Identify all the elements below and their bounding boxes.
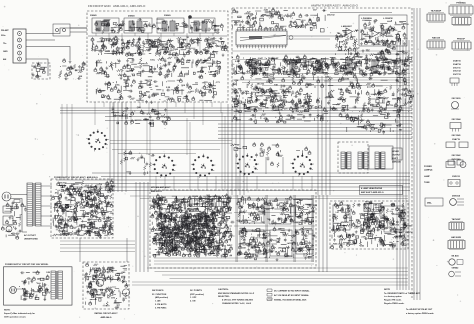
svg-text:LAMP(2): LAMP(2) — [424, 169, 433, 172]
rating transistor Q903 — [122, 289, 129, 296]
headphone amp title box — [360, 186, 403, 195]
svg-text:2SC1030: 2SC1030 — [452, 98, 462, 100]
function switch wafer S1-1 — [86, 129, 109, 151]
svg-text:AC OUTLET: AC OUTLET — [24, 234, 36, 237]
antenna terminal 2 — [18, 38, 22, 42]
antenna terminal strip — [13, 29, 26, 63]
svg-text:MUX BUSS STANDARD NOTES H-LF: MUX BUSS STANDARD NOTES H-LF — [218, 292, 255, 295]
tuner assembly dashed border right — [411, 8, 413, 298]
headphone sub-circuit box A — [333, 205, 350, 230]
svg-text:SW FUNCS: SW FUNCS — [152, 290, 164, 292]
ref package upper right 2 — [452, 18, 471, 25]
svg-text:DIAL: DIAL — [427, 202, 433, 205]
output stage dashed box — [338, 142, 368, 173]
svg-text:AMP ASS'Y AMR-035-G: AMP ASS'Y AMR-035-G — [361, 191, 384, 194]
svg-text:POWER SUPPLY CIRCUIT FOR 100V: POWER SUPPLY CIRCUIT FOR 100V MODEL — [5, 264, 49, 266]
svg-text:2SC710: 2SC710 — [401, 24, 409, 26]
ref 2SC1345 2SA719 labels — [452, 134, 462, 141]
ref PH001P package — [452, 42, 471, 49]
IF row top rail — [232, 60, 410, 74]
meter amp sub-box parts — [360, 19, 410, 47]
jack box — [392, 148, 402, 160]
svg-text:2SC710: 2SC710 — [386, 105, 394, 107]
coil L3 — [162, 21, 167, 31]
lower interconnect wires — [56, 173, 410, 191]
right area vertical wires — [414, 8, 420, 300]
rating transistor Q901 — [96, 279, 103, 286]
AM amp stage row 1 — [236, 195, 318, 225]
RF stage transistor Q3 — [185, 23, 188, 27]
svg-text:100u: 100u — [150, 60, 155, 62]
svg-text:S1 FUNCTION: S1 FUNCTION — [152, 294, 167, 296]
coil L4 — [194, 21, 199, 31]
svg-text:S2 POINTS: S2 POINTS — [190, 290, 202, 292]
RF stage transistor Q2 — [152, 23, 155, 27]
MPX bottom wires — [154, 258, 314, 264]
svg-text:L.AML8607: L.AML8607 — [341, 25, 353, 28]
antenna labels — [1, 29, 9, 61]
svg-text:2SC1344: 2SC1344 — [452, 118, 462, 121]
svg-text:GND: GND — [3, 51, 8, 53]
middle sparse parts — [230, 142, 311, 158]
ref transistor list — [453, 60, 462, 77]
RF row caps — [98, 27, 211, 32]
ref TA7069AP package — [427, 14, 445, 21]
svg-text:AMR-044-G: AMR-044-G — [100, 316, 111, 319]
FM front end assembly dashed enclosure — [87, 11, 228, 102]
svg-text:RATING CIRCUIT ASS'Y: RATING CIRCUIT ASS'Y — [94, 312, 118, 315]
left edge small parts — [59, 58, 87, 80]
function switch wafer S1-3 — [191, 154, 215, 178]
svg-text:0.047: 0.047 — [258, 57, 264, 60]
bottom vertical bundle x319-327 — [319, 195, 327, 272]
MPX decoder parts left — [150, 193, 235, 258]
svg-text:2SD313: 2SD313 — [452, 176, 461, 178]
svg-text:0.047: 0.047 — [100, 90, 106, 93]
svg-text:ASS'Y: ASS'Y — [392, 157, 399, 160]
signal bus wires — [60, 108, 412, 154]
AM amp sub-circuit box A — [240, 200, 264, 223]
AM amp sub-circuit box B — [269, 200, 291, 224]
svg-text:PH001P: PH001P — [457, 39, 466, 41]
detector row left — [232, 87, 314, 115]
svg-text:4 OR 5x5, VTR TUNING VALVES: 4 OR 5x5, VTR TUNING VALVES — [222, 299, 253, 302]
wires above headphone box — [130, 196, 408, 199]
MPX filter sub box — [32, 63, 50, 79]
svg-text:10K: 10K — [374, 205, 378, 207]
power transformer T901 — [27, 183, 41, 226]
svg-text:2SK30A: 2SK30A — [452, 195, 461, 198]
tuner top rail — [330, 12, 392, 14]
op-amp U2 triangle — [372, 30, 379, 37]
function switch wafer S1-4 — [235, 153, 258, 176]
IF mid rails — [232, 78, 410, 86]
bus verticals left — [62, 104, 72, 180]
svg-text:3. FM FUNC: 3. FM FUNC — [155, 307, 167, 309]
driver sub box — [369, 146, 393, 169]
power supply circuit assy AMR-005-G enclosure — [51, 179, 113, 238]
dial cord line — [287, 35, 345, 37]
svg-text:Ta: RESIDENT RATIO of THE BF A: Ta: RESIDENT RATIO of THE BF ANT — [384, 292, 421, 295]
legend measurement icons — [267, 289, 310, 301]
svg-text:NOTE: NOTE — [384, 289, 391, 291]
wire antenna to front end 2 — [26, 39, 55, 41]
svg-text:0.047: 0.047 — [80, 206, 86, 209]
RF stage transistor Q1 — [119, 23, 122, 27]
tuner dashed border left — [231, 8, 233, 103]
svg-text:TA7069AP: TA7069AP — [431, 10, 442, 13]
svg-text:2SC710: 2SC710 — [306, 61, 314, 63]
dial lamp box — [425, 198, 443, 206]
power lamp labels — [424, 166, 433, 184]
front end vertical drops — [96, 33, 213, 52]
transformer T902 — [51, 271, 63, 299]
svg-text:MPX AM AMP ASS'Y: MPX AM AMP ASS'Y — [151, 186, 171, 189]
driver transformers T1 T2 T3 — [341, 152, 385, 169]
svg-text:2SA716: 2SA716 — [453, 60, 462, 63]
coil L1b — [104, 21, 109, 31]
svg-text:2SC1345: 2SC1345 — [452, 134, 462, 137]
svg-text:AMR-035: AMR-035 — [392, 161, 402, 164]
AC plug — [2, 192, 11, 201]
svg-text:0SM42: 0SM42 — [452, 267, 460, 270]
svg-text:SE A56: SE A56 — [451, 255, 459, 258]
MPX AM amp assy AM6-005-G enclosure — [150, 190, 316, 268]
svg-text:SELECTED:: SELECTED: — [218, 296, 230, 298]
rating transistor Q902 — [90, 289, 97, 296]
tuning gang capacitor body — [236, 31, 287, 45]
wire antenna to front end 1 — [26, 28, 87, 34]
MPX AM amp label — [151, 186, 171, 193]
AM amp sub-circuit box E — [270, 230, 292, 256]
svg-text:2SC711: 2SC711 — [453, 67, 461, 69]
svg-text:2.2K: 2.2K — [264, 9, 269, 11]
switch interconnect parts — [120, 150, 155, 176]
svg-text:1. OFF: 1. OFF — [190, 297, 197, 299]
ref 2SC1030 package — [451, 102, 459, 110]
ref TO92 outline A — [450, 78, 459, 86]
svg-text:10K: 10K — [79, 76, 83, 78]
ref SE A56 package — [449, 259, 463, 265]
svg-text:Ta: ADJUST AT FM AF OUT: Ta: ADJUST AT FM AF OUT — [406, 308, 433, 311]
detector row right — [315, 87, 414, 113]
wires above rating box — [60, 238, 135, 262]
AM amp sub-circuit box C — [295, 199, 313, 222]
headphone amp parts — [331, 201, 414, 249]
AC plug 100V — [10, 287, 24, 294]
coil L1 — [96, 21, 101, 31]
svg-text:AM6-005-G: AM6-005-G — [151, 190, 162, 193]
front end row wire — [88, 35, 227, 37]
svg-text:TA7069P: TA7069P — [452, 218, 461, 221]
svg-text:2SA719: 2SA719 — [145, 79, 153, 82]
ref RA1038 package — [427, 41, 445, 48]
svg-text:UNSWITCHED: UNSWITCHED — [24, 239, 38, 241]
tuner mid rails — [232, 51, 410, 54]
svg-text:AC VOLTAGE AT NO INPUT SIGNAL: AC VOLTAGE AT NO INPUT SIGNAL — [274, 294, 310, 297]
AM amp sub-circuit box F — [296, 230, 313, 254]
svg-text:4 LAMP HEADPHONE: 4 LAMP HEADPHONE — [361, 187, 383, 190]
MPX filter parts — [32, 62, 47, 78]
parts above wafer band — [111, 106, 170, 126]
function switch wafer S1-2 — [152, 154, 176, 178]
svg-text:1. AM: 1. AM — [155, 300, 161, 303]
IC SE7304 hatched — [364, 204, 380, 212]
ref 2SC1342 2SD234A labels — [451, 154, 461, 161]
wire antenna ground — [26, 47, 70, 61]
headphone amp assy AMR-035-G enclosure — [330, 201, 408, 249]
coil L4b — [202, 21, 207, 31]
rating circuit label — [94, 312, 118, 319]
svg-text:2SC732: 2SC732 — [257, 83, 265, 85]
front end drop wires — [95, 102, 221, 125]
svg-text:SIGNAL VOLTAGE AT IDEAL AUX: SIGNAL VOLTAGE AT IDEAL AUX — [274, 298, 307, 301]
ref 2SK30A package — [450, 199, 464, 206]
power supply circuit for 100V model box — [4, 267, 73, 305]
svg-text:L.1306PM: L.1306PM — [383, 18, 393, 20]
svg-text:2. FM AUTO: 2. FM AUTO — [155, 303, 167, 306]
legend s2 points — [190, 290, 204, 303]
svg-text:Regular FM2H mode.: Regular FM2H mode. — [384, 302, 405, 305]
far bottom right note — [406, 308, 435, 315]
antenna terminal 3 — [18, 45, 22, 49]
svg-text:HA1306W: HA1306W — [451, 236, 462, 239]
svg-text:TUNE: TUNE — [424, 182, 430, 184]
AM amp sub-circuit box D — [240, 230, 264, 254]
tuning gang wedge lines — [240, 35, 286, 40]
rating circuit parts — [84, 262, 128, 309]
transformer secondary wires — [41, 186, 52, 226]
svg-text:3SK49: 3SK49 — [164, 14, 171, 17]
svg-text:2SK49: 2SK49 — [128, 15, 135, 18]
bus verticals x110-128 — [110, 102, 225, 192]
ref PH0882A package — [449, 6, 473, 14]
svg-text:0.047: 0.047 — [183, 97, 189, 100]
svg-text:1S1555: 1S1555 — [256, 95, 264, 97]
FM RF shield box 3 — [157, 18, 184, 33]
svg-text:2SC710: 2SC710 — [197, 71, 205, 73]
svg-text:2SC710: 2SC710 — [234, 21, 242, 23]
svg-text:2SC732: 2SC732 — [405, 232, 413, 234]
svg-text:is a factory option: is a factory option — [384, 295, 402, 298]
wafer drop wires — [156, 176, 312, 190]
ref 2SC1345 package — [446, 142, 468, 148]
AM amp horizontal rails — [234, 213, 315, 227]
IC L1306M hatched — [190, 199, 209, 207]
svg-text:3SK45: 3SK45 — [90, 14, 97, 17]
svg-text:CAUTION:: CAUTION: — [218, 288, 229, 291]
svg-text:2SA718: 2SA718 — [453, 63, 462, 66]
wire AM antenna — [26, 59, 48, 76]
tuning gang top ticks — [236, 28, 287, 31]
svg-text:100u: 100u — [185, 44, 190, 46]
MPX decoder core blob — [157, 210, 217, 253]
FM IF amplifier row — [232, 54, 413, 77]
antenna terminal 5 — [18, 57, 22, 61]
fuse F901 — [14, 200, 20, 203]
dark trimmer capacitor — [188, 15, 192, 19]
RF shield band parts — [95, 18, 224, 34]
ref 0SM42 package — [449, 271, 461, 277]
svg-text:100V operation circuit.: 100V operation circuit. — [4, 316, 26, 319]
ref 2SD313 package — [448, 180, 460, 187]
svg-text:2SA719: 2SA719 — [452, 138, 461, 141]
antenna terminal 4 — [18, 51, 22, 55]
svg-text:PH0882A: PH0882A — [456, 2, 466, 5]
svg-text:2SC733: 2SC733 — [453, 74, 462, 76]
svg-text:FM FRONT END AM6-100-C, AM6-: FM FRONT END AM6-100-C, AM6-015-O — [88, 4, 146, 8]
svg-text:LAMP: LAMP — [424, 175, 430, 178]
right tuner column parts — [362, 46, 409, 60]
bus verticals x396-410 — [397, 40, 409, 290]
legend right note — [384, 289, 421, 305]
svg-text:POWER SUPPLY CIRCUIT ASS'Y AM: POWER SUPPLY CIRCUIT ASS'Y AMR-005-G — [54, 176, 98, 179]
svg-text:2. ON: 2. ON — [190, 301, 196, 303]
FM IF limiter band — [232, 74, 407, 90]
headphone amp core blob — [362, 213, 385, 230]
svg-text:0.047: 0.047 — [235, 60, 241, 63]
svg-text:(AM position): (AM position) — [155, 296, 168, 299]
svg-text:2.2K: 2.2K — [166, 87, 171, 89]
FM oscillator stage components — [94, 56, 221, 79]
svg-text:100u: 100u — [245, 91, 250, 93]
balun connector box — [53, 24, 70, 36]
tuning gang dark label — [249, 36, 262, 39]
svg-text:LEVER: LEVER — [392, 151, 399, 153]
IF strip row 1 transformers — [252, 60, 378, 73]
svg-text:100u: 100u — [92, 216, 97, 218]
bus verticals x318-330 — [318, 76, 330, 195]
svg-text:10K: 10K — [406, 65, 410, 67]
tuner assembly dashed border top — [232, 7, 412, 9]
ground symbol near antenna — [69, 60, 72, 63]
rating circuit assy AMR-044-G enclosure — [83, 262, 129, 309]
headphone jack note — [392, 151, 402, 164]
AC wiring to transformer — [11, 195, 27, 233]
svg-text:4.7K: 4.7K — [98, 284, 103, 287]
svg-text:RA1038: RA1038 — [432, 37, 441, 40]
svg-text:a factory option FM2H mode.: a factory option FM2H mode. — [406, 312, 435, 315]
svg-text:FM ANT: FM ANT — [1, 29, 9, 32]
note below 100V box — [4, 310, 35, 319]
svg-text:4.7K: 4.7K — [77, 217, 82, 220]
svg-text:2SA719: 2SA719 — [119, 115, 127, 118]
coil L2b — [137, 21, 142, 31]
headphone sub-circuit box B — [384, 206, 404, 232]
bottom vertical bundle x136-148 — [136, 182, 148, 272]
FM OSC shield box 4 — [189, 18, 215, 33]
meter amp sub-box — [359, 15, 407, 46]
bottom bus wires — [132, 268, 408, 285]
svg-text:2.2K: 2.2K — [408, 102, 413, 104]
svg-text:0.047: 0.047 — [255, 99, 261, 102]
tuning gang bottom ticks — [236, 45, 287, 48]
FM RF shield box 1 — [92, 18, 119, 33]
svg-text:AM/FM TUNER ASS'Y AM6-015-O: AM/FM TUNER ASS'Y AM6-015-O — [311, 4, 359, 8]
svg-text:100u: 100u — [321, 70, 326, 72]
power switch parts — [12, 201, 27, 212]
svg-text:2.2K: 2.2K — [281, 230, 286, 232]
svg-text:NOTE:: NOTE: — [4, 310, 11, 312]
svg-text:2SD234A: 2SD234A — [451, 158, 461, 161]
svg-text:2SC732: 2SC732 — [59, 182, 67, 184]
antenna terminal 1 — [18, 32, 22, 36]
AC outlet parts — [1, 202, 22, 239]
ref TA7069P package — [449, 223, 464, 230]
AM amp stage row 2 — [237, 227, 316, 262]
svg-text:2SC732: 2SC732 — [327, 15, 335, 17]
svg-text:33K: 33K — [396, 54, 400, 56]
ratio detector right parts — [339, 109, 403, 134]
headphone amp label — [361, 187, 384, 194]
svg-text:(OFF position): (OFF position) — [190, 293, 204, 296]
level control between wafers — [266, 156, 283, 174]
svg-text:POWER: POWER — [424, 166, 432, 168]
svg-text:0.047: 0.047 — [323, 71, 329, 74]
svg-text:Regular FM mode.: Regular FM mode. — [384, 299, 402, 302]
bus verticals x228-246 — [228, 104, 244, 195]
function switch wafer S1-5 — [290, 153, 314, 176]
AC outlet block — [3, 206, 13, 232]
svg-text:Super-Pr-Max indicated only fo: Super-Pr-Max indicated only for — [4, 312, 35, 315]
tuner upper area components — [232, 8, 335, 33]
FM AGC components — [96, 78, 221, 104]
speaker icons — [448, 160, 463, 165]
IF right dashed divider — [399, 57, 401, 112]
ref 2SC1344 package — [450, 123, 461, 132]
svg-text:10K: 10K — [202, 62, 206, 64]
coil L3b — [170, 21, 175, 31]
svg-text:DC CURRENT AT NO INPUT SIGNAL: DC CURRENT AT NO INPUT SIGNAL — [274, 290, 310, 293]
legend caution — [218, 288, 255, 305]
svg-text:CHANGE NOTES V-4.2, H-4.2: CHANGE NOTES V-4.2, H-4.2 — [222, 302, 252, 305]
ref 2SC1342 package — [446, 162, 466, 168]
svg-text:L.PH0882A: L.PH0882A — [361, 17, 372, 20]
svg-text:AM: AM — [3, 58, 6, 61]
svg-text:2SC732: 2SC732 — [453, 71, 462, 73]
coil L2 — [129, 21, 134, 31]
AGC strip below detector — [232, 113, 328, 123]
power supply rectifier parts — [52, 180, 117, 239]
meter driver components — [335, 30, 360, 57]
FM RF shield box 2 — [124, 18, 152, 33]
svg-text:33K: 33K — [388, 74, 392, 76]
wire balun to front end — [70, 28, 87, 32]
svg-text:2SC1342: 2SC1342 — [452, 154, 462, 157]
dial pulley — [289, 36, 293, 40]
ref HA1306W package — [448, 241, 465, 249]
op-amp U1 triangle — [346, 28, 353, 35]
IC HA1306 hatched — [212, 199, 228, 207]
legend sw functions — [152, 290, 168, 309]
svg-text:OUTPUT: OUTPUT — [392, 155, 401, 157]
FM mixer stage components — [91, 35, 227, 57]
AM amp vertical rails — [236, 195, 313, 262]
100V model parts — [19, 270, 51, 301]
